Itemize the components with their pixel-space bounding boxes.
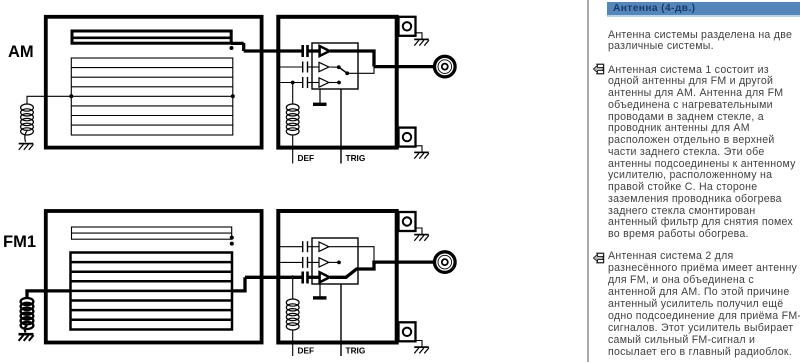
filter coil L4 (inside amp) — [286, 299, 299, 330]
ground (top tab) — [414, 39, 429, 45]
mounting tab (bottom) — [399, 128, 416, 147]
coax connector J1 (AM) — [435, 56, 456, 77]
wire: bus to choke coil — [27, 96, 71, 104]
mounting tab (top, FM1) — [399, 212, 416, 231]
ground (below AM coil) — [19, 144, 34, 150]
defogger grid (AM) — [71, 58, 233, 135]
node A (switch contact row2) — [337, 65, 341, 69]
wire: row2 input — [280, 261, 303, 263]
TRIG line — [340, 284, 342, 356]
ground (inner unit) — [313, 89, 327, 104]
wire: coil to ground — [25, 325, 27, 333]
wire: A2 to switch contact — [329, 66, 339, 68]
coax connector J2 (FM1) — [435, 252, 456, 273]
node: bar end dot 2 — [230, 242, 234, 246]
wire: C1 to buffer — [308, 49, 320, 52]
node: bus right — [231, 94, 235, 98]
wire: DEF branch down — [292, 277, 294, 299]
wire: tab to ground — [416, 33, 423, 39]
choke coil L1 (AM) — [21, 104, 34, 135]
defogger bus wire (AM feed) — [71, 95, 233, 97]
capacitor C1 (thick, FM path) — [303, 45, 308, 57]
wire: bar tail to amplifier (thick) — [231, 43, 302, 51]
ground (below FM1 coil, thick) — [19, 334, 34, 341]
amp buffer A5 — [319, 258, 329, 267]
wire: C3 to buffer — [308, 82, 320, 84]
wire: A3 to switch contact — [329, 82, 339, 84]
wire: tab to ground — [416, 228, 423, 234]
svg-text:TRIG: TRIG — [346, 346, 366, 356]
capacitor C3 — [303, 77, 308, 88]
rear window glass (AM) — [46, 17, 262, 148]
svg-text:TRIG: TRIG — [346, 153, 366, 163]
switch arm S1 — [339, 67, 347, 73]
inner amp unit box — [312, 238, 358, 284]
svg-text:DEF: DEF — [298, 346, 315, 356]
node: bar end dot 1 — [230, 236, 234, 240]
wire: row1 input — [280, 246, 303, 248]
amp buffer A1 (thick) — [320, 46, 330, 56]
wire: C2 to buffer — [308, 66, 320, 68]
mounting tab (top) — [399, 17, 416, 36]
ground (bottom tab) — [414, 152, 429, 158]
wire: bus to coil (thick) — [27, 291, 71, 298]
amp buffer A2 — [319, 62, 329, 71]
amp buffer A3 — [319, 78, 329, 87]
wire: A4 to output node (thin) — [329, 247, 374, 262]
wire: tab to ground — [416, 146, 423, 152]
wire: row2 input — [280, 66, 303, 68]
node C (switch contact row3) — [337, 81, 341, 85]
node: DEF branch junction — [291, 81, 295, 85]
antenna amplifier box (AM) — [278, 17, 396, 148]
wire+switch arm: A6 to output (thick selected path) — [330, 262, 433, 277]
capacitor C6 (thick, FM path) — [303, 272, 308, 284]
capacitor C5 — [303, 257, 308, 268]
wire: bus to amplifier (thick step) — [232, 277, 302, 291]
node: bar end junction dot — [230, 46, 234, 50]
svg-text:DEF: DEF — [298, 153, 315, 163]
capacitor C2 — [303, 62, 308, 73]
node B (switch common) — [345, 71, 349, 75]
wire: DEF line out — [292, 135, 294, 164]
capacitor C4 — [303, 241, 308, 252]
rear window glass (FM1) — [46, 211, 262, 343]
ground (inner unit) — [313, 284, 327, 298]
wire: DEF branch down — [292, 83, 294, 105]
defogger grid (FM1, thick) — [71, 253, 233, 330]
svg-text:AM: AM — [8, 43, 34, 61]
choke coil L3 (FM1, thick) — [21, 298, 34, 329]
mounting tab (bottom, FM1) — [399, 322, 416, 341]
wire: DEF line out — [292, 330, 294, 356]
wire: tab to ground — [416, 341, 423, 347]
node: DEF branch junction — [291, 275, 295, 279]
wire: C6 to buffer (thick) — [308, 276, 320, 279]
TRIG line — [340, 89, 342, 164]
wire: row3 input — [280, 82, 303, 84]
inner amp unit box — [312, 43, 358, 89]
wire: C4 to buffer — [308, 246, 320, 248]
wire: coil to ground — [25, 131, 27, 142]
wire: A1 to output node (thick) — [330, 49, 433, 66]
amp buffer A4 — [319, 242, 329, 251]
wire: C5 to buffer — [308, 261, 320, 263]
node A2 (switch contact row2) — [337, 261, 341, 265]
wire: A5 to switch contact — [329, 261, 339, 263]
amp buffer A6 (thick) — [320, 272, 330, 282]
AM antenna bar (thin) — [72, 227, 232, 239]
node: bus left — [69, 94, 73, 98]
ground (top tab) — [414, 235, 429, 241]
FM antenna bar — [72, 31, 231, 43]
defogger bus wire (FM feed, thick) — [71, 290, 233, 293]
svg-text:FM1: FM1 — [3, 233, 36, 251]
ground (bottom tab) — [414, 347, 429, 353]
wire: switch common to output node — [347, 67, 374, 74]
antenna amplifier box (FM1) — [278, 211, 396, 343]
filter coil L2 (inside amp) — [286, 104, 299, 135]
